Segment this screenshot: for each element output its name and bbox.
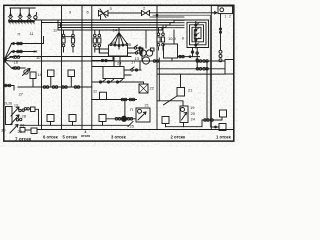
svg-text:21: 21 xyxy=(188,88,193,93)
svg-text:3 отсек: 3 отсек xyxy=(111,135,127,140)
svg-text:1: 1 xyxy=(225,15,227,19)
svg-text:2: 2 xyxy=(229,15,231,19)
svg-text:27: 27 xyxy=(19,92,24,97)
svg-text:7 отсек: 7 отсек xyxy=(15,137,32,142)
svg-text:25: 25 xyxy=(130,124,135,129)
svg-text:24: 24 xyxy=(117,61,122,66)
svg-text:1 отсек: 1 отсек xyxy=(216,135,232,140)
svg-text:19,26: 19,26 xyxy=(4,102,13,106)
svg-text:17: 17 xyxy=(131,60,136,65)
svg-text:16: 16 xyxy=(14,60,19,65)
svg-text:П: П xyxy=(130,107,133,112)
svg-text:6 отсек: 6 отсек xyxy=(43,135,59,140)
svg-text:15: 15 xyxy=(127,42,132,47)
svg-text:12: 12 xyxy=(33,49,38,54)
svg-text:10: 10 xyxy=(36,55,41,60)
svg-text:19: 19 xyxy=(38,72,43,77)
svg-text:18: 18 xyxy=(111,40,116,45)
svg-text:22: 22 xyxy=(93,90,97,94)
svg-text:29: 29 xyxy=(18,129,23,134)
svg-text:2 отсек: 2 отсек xyxy=(171,135,187,140)
svg-text:22: 22 xyxy=(150,86,155,91)
svg-text:5 отсек: 5 отсек xyxy=(63,135,79,140)
svg-text:30: 30 xyxy=(1,128,6,133)
svg-text:24: 24 xyxy=(191,117,196,122)
svg-text:14: 14 xyxy=(113,28,118,33)
svg-text:13: 13 xyxy=(14,104,18,108)
svg-text:8: 8 xyxy=(182,37,184,41)
svg-text:20: 20 xyxy=(191,111,196,116)
svg-text:19: 19 xyxy=(190,105,195,110)
svg-text:28: 28 xyxy=(22,114,27,119)
svg-text:отсек: отсек xyxy=(81,134,90,138)
svg-text:10,9: 10,9 xyxy=(168,36,177,41)
svg-text:21: 21 xyxy=(145,103,150,108)
svg-text:26: 26 xyxy=(20,123,25,128)
svg-text:П: П xyxy=(18,32,21,37)
